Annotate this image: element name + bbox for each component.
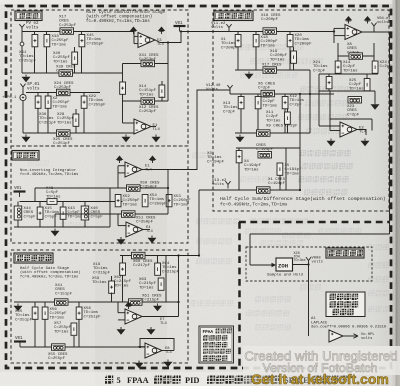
resistor X56 [42,307,48,319]
resistor X22 B [326,77,332,89]
svg-text:fc=0.499kHz,Tc=2ms,TD=1ms: fc=0.499kHz,Tc=2ms,TD=1ms [20,274,79,279]
resistor X38 [44,35,50,47]
svg-text:TD=1ms: TD=1ms [244,168,259,172]
sample-and-hold dashed box [246,247,372,281]
svg-text:TD=1ms: TD=1ms [54,330,69,334]
svg-text:TL4: TL4 [153,128,161,132]
svg-text:PV e2: PV e2 [26,22,39,26]
wire SP stem [22,91,24,94]
capacitor X44 CRES vertical [14,206,22,220]
resistor X29 [81,96,87,108]
wire D output to V13 [198,190,200,256]
resistor X2 [45,96,51,108]
node V008 antenna [306,257,311,264]
open node on input column [20,42,24,46]
ground D2 right [167,360,169,362]
resistor X22 [35,96,41,108]
svg-text:C=251pF: C=251pF [84,315,102,319]
resistor X12 B [282,97,288,109]
power pin A1 right [158,27,166,32]
wire ZOH output [293,264,310,266]
svg-text:TD=1ms: TD=1ms [57,121,72,125]
resistor X16 [120,82,126,94]
svg-text:TD=3ms: TD=3ms [294,259,306,263]
wire D feedback top rail [120,255,199,257]
svg-text:TD=1ms: TD=1ms [285,172,300,176]
svg-text:+SP0.1: +SP0.1 [2,96,17,100]
svg-text:C=215pF: C=215pF [142,299,160,303]
wire A1 output to node V01 [155,32,181,43]
integrator block dashed box [11,146,188,243]
wire C2 stubs [118,225,126,227]
subtractor block dashed box [11,10,188,146]
node V04 antenna [371,23,376,30]
svg-text:C=217pF: C=217pF [133,264,151,268]
ground B2 right [364,139,366,141]
wire D2 feedback loop [140,339,174,351]
svg-text:C=194pF: C=194pF [207,160,225,164]
capacitor X40 CRES vertical [81,206,89,220]
wire A feedback lower [123,100,169,102]
power pin A1 left [130,27,138,32]
wire main rail C [20,201,123,203]
resistor X20 [287,35,293,47]
ground C2 left [120,237,122,239]
note box FPAA switched-capacitor model [199,326,234,363]
svg-text:PID: PID [185,376,199,385]
wire main rail D [14,301,179,303]
node PV input antenna [19,24,24,31]
svg-text:TD=1ms: TD=1ms [263,104,278,108]
svg-text:C=200pF: C=200pF [295,42,313,46]
svg-text:C=250pF: C=250pF [150,202,168,206]
svg-text:volts: volts [377,20,388,25]
svg-text:TD=1ms: TD=1ms [68,215,83,219]
wire bottom rail B row1 [235,69,310,71]
ground D2 left [138,361,140,363]
svg-text:5: 5 [117,376,121,385]
svg-text:TD=1ms: TD=1ms [52,43,67,47]
wire D1 output loop [142,316,179,318]
wire B2 feedback [329,91,331,131]
resistor X24 B [372,61,378,73]
wire B2 output [357,130,366,136]
svg-text:C=2pF: C=2pF [223,110,236,114]
ground rail A row2 [25,135,27,137]
svg-text:TL4: TL4 [160,322,168,326]
wire A1 input bend [133,32,135,37]
svg-text:C=255pF: C=255pF [89,103,107,107]
op-amp B2 [340,122,357,137]
ground B row1 [248,72,250,74]
watermark FotoBatch [244,349,397,386]
svg-text:ZOH: ZOH [278,263,288,270]
svg-text:SP.01: SP.01 [27,83,40,87]
op-amp B1 main [345,25,362,40]
svg-text:C=194pF: C=194pF [268,182,286,186]
wire D stems upper [122,256,124,303]
power pin C1 right [149,156,157,161]
svg-text:volts: volts [211,25,224,30]
svg-text:C=200pF: C=200pF [261,18,279,22]
resistor X21 B [235,35,241,47]
ground C bottom rail [54,229,56,231]
svg-text:TD=1ms: TD=1ms [92,281,107,285]
svg-text:FPAA: FPAA [127,376,149,385]
gain stage block dashed box [11,250,188,363]
resistor X58 D [120,263,126,275]
wire resistor stems A row1 [34,32,36,74]
capacitor X60 CRES [132,252,146,258]
svg-text:Sample and Hold: Sample and Hold [267,273,304,278]
thick dashed divider horizontal [239,221,390,224]
capacitor X51 CRES [122,211,136,218]
wire bottom rail C [14,226,110,228]
svg-text:C=2pF: C=2pF [347,113,360,117]
wire D2 stubs [138,346,145,348]
svg-text:C=215pF: C=215pF [162,270,180,274]
wire rail A to summing block [181,31,334,33]
right page edge dark strip [393,0,396,386]
capacitor X55 CRES [52,344,66,351]
svg-text:Half Cycle Sum/Difference Stag: Half Cycle Sum/Difference Stage(with off… [220,196,386,202]
svg-text:TD=1ms: TD=1ms [139,93,154,97]
power pin B1 left [345,16,353,21]
resistor X7 [238,97,244,109]
op-amp C1 main [125,162,142,177]
op-amp D1 [125,309,142,324]
capacitor X12 CRES [141,98,155,105]
summing amplifier block dashed box [213,10,389,211]
svg-text:TD=1ms: TD=1ms [123,203,138,207]
wire B1 output V04 [362,31,390,33]
ground D1 right [150,327,152,329]
resistor X54 [142,195,148,207]
svg-text:TD=1ms: TD=1ms [261,44,276,48]
svg-text:C=251pF: C=251pF [39,121,57,125]
wire stems A row2 [37,93,39,134]
wire bottom rail D [20,346,145,348]
svg-text:volts: volts [26,25,39,30]
follow-up system model box [326,292,365,317]
svg-text:C=251pF: C=251pF [15,318,33,322]
svg-text:C=253pF: C=253pF [139,110,157,114]
resistor X14 B [335,61,341,73]
svg-text:C=250pF: C=250pF [136,221,154,225]
resistor X52 [115,195,121,207]
resistor X10 [255,97,261,109]
svg-text:C=2pF: C=2pF [380,65,393,69]
svg-text:den.coeff=0.00006 0.00305 0.21: den.coeff=0.00006 0.00305 0.21510 [311,325,387,330]
svg-text:TD=1ms: TD=1ms [114,284,129,288]
wire C feedback column [167,170,169,215]
capacitor X41 CRES D [55,299,69,306]
resistor X3 [236,151,242,163]
node SP antenna [20,84,25,91]
bleed-through text from reverse page [28,44,389,330]
op-amp D2 [145,343,162,358]
node Vo.HPL arrow [354,334,359,338]
resistor X5 [277,163,283,175]
wire bottom rail A row2 [23,132,136,134]
ground D main rail left [17,304,19,306]
wire stems B row2 [240,94,242,133]
power pin D1 left [125,302,133,307]
ground A2 right [155,135,157,137]
svg-text:TD=1ms: TD=1ms [53,60,68,64]
svg-text:C=5pF: C=5pF [91,215,104,219]
wire A2 output [151,126,156,128]
wire stems B row3 [238,148,240,190]
svg-text:fc=0.499kHz,Ts=1ms,TD=1ms: fc=0.499kHz,Ts=1ms,TD=1ms [86,19,150,24]
svg-text:volts: volts [312,260,323,265]
svg-text:C=250pF: C=250pF [140,186,158,190]
ground A2 left [125,135,127,137]
svg-text:TD=1ms: TD=1ms [50,316,65,320]
wire rail B row3 top [236,147,300,149]
ground B right [374,91,376,102]
output buffer A1 [329,330,343,342]
svg-text:C=5pF: C=5pF [24,215,37,219]
wire B right columns [333,32,335,44]
svg-text:TL4: TL4 [165,351,173,355]
svg-text:Get it at keksoft.com: Get it at keksoft.com [251,371,389,386]
svg-text:C=215pF: C=215pF [93,271,111,275]
ground D main rail right [157,304,159,306]
svg-text:volts: volts [361,336,372,341]
integrator label box [12,151,39,161]
wire rail A row2 [26,92,100,94]
svg-text:fc=0.499kHz,Tc=2ms,TD=1ms: fc=0.499kHz,Tc=2ms,TD=1ms [220,202,288,208]
svg-text:TL4: TL4 [146,230,154,234]
watermark white plate [243,346,400,375]
wire rail B row3 [199,189,300,191]
capacitor X25 CRES [57,130,71,137]
op-amp A1 main [138,33,155,48]
wire main rail A [22,31,134,33]
wire C1 inputs [118,165,125,167]
resistor X58 [76,307,82,319]
wire bottom rail A row1 [22,72,123,74]
thick dashed divider vertical [238,222,241,367]
svg-text:C=255pF: C=255pF [48,357,66,361]
svg-text:fc=0.499kHz,Ts=2ms,TD=1ms: fc=0.499kHz,Ts=2ms,TD=1ms [20,172,79,177]
svg-text:TL4: TL4 [145,169,153,173]
sample-hold label box [326,248,364,258]
svg-text:FPAA: FPAA [203,330,214,335]
svg-text:X9 CRES C=2pF: X9 CRES C=2pF [266,125,298,129]
wire opamp A2 input column [122,64,124,124]
wire bottom rail B row2 [235,132,310,134]
resistor X66 [32,307,38,319]
wire V008 down [308,265,310,337]
svg-text:TD=1ms: TD=1ms [174,203,189,207]
ZOH block [276,258,293,271]
svg-text:TD=1ms: TD=1ms [266,119,281,123]
capacitor X23 CRES [348,97,362,104]
resistor X53 [166,195,172,207]
svg-text:C=253pF: C=253pF [59,24,77,28]
ground C2 right [151,236,153,238]
power pin C1 left [116,156,124,161]
summing amplifier label box [214,11,253,21]
ground B2 left [330,139,332,141]
wire A feedback upper [123,63,169,65]
scan shading bands [95,0,167,386]
svg-text:TL4: TL4 [157,43,165,47]
power pin B1 right [364,16,372,21]
svg-text:C=251pF: C=251pF [53,142,71,146]
svg-text:TD=1ms: TD=1ms [349,87,364,91]
resistor X18 [253,35,259,47]
svg-text:TD=1ms: TD=1ms [139,286,154,290]
subtractor label box [15,11,42,21]
svg-text:TD=1ms: TD=1ms [53,105,68,109]
wire stems C row1 [17,202,19,228]
arrow into ZOH [272,263,277,267]
svg-text:TD=1ms: TD=1ms [270,58,285,62]
op-amp C2 [126,222,143,237]
junction dots B [333,30,335,32]
svg-text:C=151pF: C=151pF [55,292,73,296]
svg-text:volts: volts [212,182,225,187]
resistor X45 [79,35,85,47]
svg-text:C=2pF: C=2pF [313,69,326,73]
wire stems D lower [34,302,36,347]
wire C right rails [35,187,127,189]
svg-text:C=255pF: C=255pF [87,42,105,46]
ground D1 left [120,327,122,329]
wire V04 to ZOH [250,233,390,235]
resistor X64 [155,263,161,275]
wire rail B row2 [230,93,334,95]
ground B row2 [239,135,241,137]
resistor X37 [32,35,38,47]
wire V04 down right side [389,32,391,234]
svg-text:volts: volts [27,86,40,91]
figure caption [105,376,347,386]
gain stage label box [14,253,53,263]
wire B1 inputs [334,27,345,29]
ground below rail A [25,75,27,77]
wire stems B row1 [237,32,239,71]
wire B collector column [299,94,301,190]
resistor X15 C [37,207,43,219]
resistor X43 [60,207,66,219]
wire D1 stubs [118,312,125,314]
svg-text:TD=1ms: TD=1ms [343,69,358,73]
op-amp A2 [134,119,151,134]
wire C1 output to V12 [142,90,230,170]
wire buffer output [343,335,358,337]
